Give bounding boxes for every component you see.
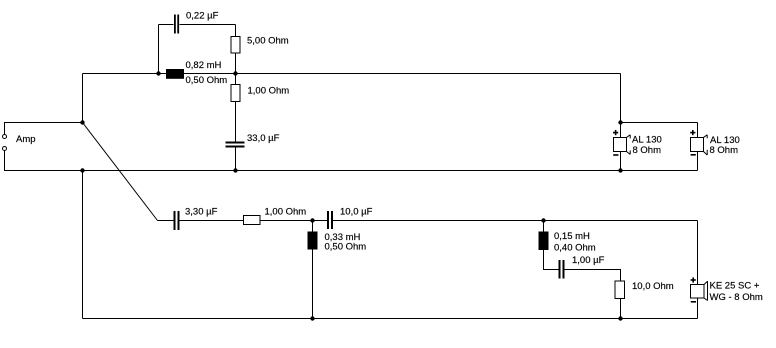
KE plus sign — [691, 279, 696, 281]
wire R2 to C2 — [235, 102, 237, 142]
capacitor C5 1,00 uF plates — [559, 260, 561, 279]
wire node C to KE drop — [544, 220, 698, 222]
resistor R1 5,00 Ohm — [231, 37, 240, 54]
wire amp minus lead — [5, 151, 698, 171]
amp terminal plus — [3, 135, 7, 139]
node amp top junction — [80, 120, 84, 124]
AL2 minus sign — [691, 154, 696, 156]
wire top rail — [83, 73, 621, 75]
speaker AL2 box — [691, 138, 704, 152]
svg-text:10,0 µF: 10,0 µF — [340, 207, 373, 218]
wire KE bottom lead — [697, 298, 699, 319]
wire lower branch left — [158, 220, 174, 222]
node L2 ground junction — [310, 316, 314, 320]
inductor L3 0,15 mH — [539, 232, 549, 251]
svg-text:10,0 Ohm: 10,0 Ohm — [632, 281, 674, 292]
svg-text:KE 25 SC +: KE 25 SC + — [710, 281, 760, 292]
svg-text:33,0 µF: 33,0 µF — [247, 133, 280, 144]
svg-text:5,00 Ohm: 5,00 Ohm — [247, 35, 289, 46]
AL2 plus sign — [690, 132, 695, 134]
wire R1 bottom lead — [235, 53, 237, 74]
wire AL2 bottom lead — [697, 152, 699, 171]
wire R2 top lead — [235, 74, 237, 85]
wire cap loop right — [235, 25, 237, 37]
wire C2 bottom lead — [235, 147, 237, 171]
svg-text:8 Ohm: 8 Ohm — [633, 145, 662, 156]
svg-text:1,00 µF: 1,00 µF — [572, 255, 605, 266]
wire KE top lead — [697, 221, 699, 285]
speaker AL1 cone — [627, 135, 631, 138]
capacitor C4 10,0 uF plates — [327, 211, 329, 229]
wire R4 bottom lead — [620, 299, 622, 319]
capacitor C2 33,0 uF plates — [226, 142, 245, 144]
amp terminal minus — [3, 147, 7, 151]
AL1 plus sign — [613, 132, 618, 134]
wire L2 bottom lead — [312, 250, 314, 319]
wire C5 to R4 — [564, 270, 621, 282]
svg-text:Amp: Amp — [16, 134, 36, 145]
resistor R2 1,00 Ohm — [231, 85, 240, 102]
wire L3 top lead — [543, 221, 545, 232]
capacitor C1 0,22 uF plates — [174, 15, 176, 34]
inductor L2 0,33 mH — [308, 232, 318, 250]
node AL1 top junction — [618, 120, 622, 124]
svg-text:0,15 mH: 0,15 mH — [554, 231, 590, 242]
node AL1 bottom junction — [618, 168, 622, 172]
wire C4 to node C — [333, 220, 544, 222]
svg-text:0,40 Ohm: 0,40 Ohm — [554, 243, 596, 254]
wire top rail right drop — [620, 74, 622, 123]
node amp bottom junction — [80, 168, 84, 172]
node R4 ground junction — [618, 316, 622, 320]
wire R3 to node B — [260, 220, 327, 222]
diagonal wire amp to lower branch — [83, 123, 158, 221]
node C lower branch — [541, 218, 545, 222]
svg-text:0,22 µF: 0,22 µF — [186, 11, 219, 22]
wire speaker mid rail — [621, 122, 698, 124]
capacitor C3 3,30 uF plates — [174, 211, 176, 230]
wire cap loop top right — [180, 24, 236, 26]
node C2 bottom junction — [233, 168, 237, 172]
svg-text:8 Ohm: 8 Ohm — [710, 145, 739, 156]
wire ground drop left — [82, 171, 84, 319]
svg-text:0,50 Ohm: 0,50 Ohm — [186, 75, 228, 86]
wire AL1 top lead — [620, 123, 622, 138]
node cap loop right junction — [233, 71, 237, 75]
wire cap loop left — [158, 25, 160, 74]
svg-text:1,00 Ohm: 1,00 Ohm — [248, 86, 290, 97]
svg-text:0,50 Ohm: 0,50 Ohm — [325, 242, 367, 253]
svg-text:3,30 µF: 3,30 µF — [185, 207, 218, 218]
wire bottom rail — [83, 318, 698, 320]
wire L3 to C5 — [544, 250, 559, 270]
wire amp plus lead — [5, 123, 83, 135]
resistor R4 10,0 Ohm — [615, 281, 625, 299]
inductor L1 0,82 mH — [166, 69, 184, 79]
svg-text:0,82 mH: 0,82 mH — [186, 60, 222, 71]
wire AL1 bottom lead — [620, 152, 622, 171]
node cap loop left junction — [156, 71, 160, 75]
speaker KE cone — [704, 281, 708, 284]
speaker KE box — [691, 285, 705, 299]
wire cap loop top left — [159, 24, 174, 26]
node B lower branch — [310, 218, 314, 222]
wire C3 to R3 — [180, 220, 244, 222]
svg-text:1,00 Ohm: 1,00 Ohm — [265, 207, 307, 218]
speaker AL1 box — [614, 138, 627, 152]
AL1 minus sign — [613, 154, 618, 156]
wire L2 top lead — [312, 221, 314, 232]
wire AL2 top lead — [697, 123, 699, 138]
resistor R3 1,00 Ohm — [244, 216, 261, 225]
KE minus sign — [691, 301, 696, 303]
svg-text:WG - 8 Ohm: WG - 8 Ohm — [710, 292, 763, 303]
wire left vertical to amp node — [82, 74, 84, 123]
speaker AL2 cone — [704, 135, 708, 138]
